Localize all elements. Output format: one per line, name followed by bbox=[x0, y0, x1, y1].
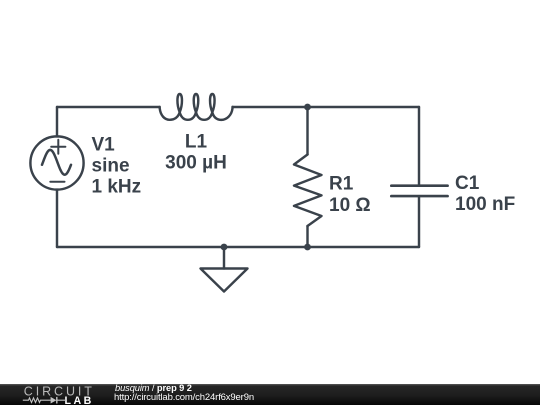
svg-text:300 µH: 300 µH bbox=[165, 153, 227, 174]
svg-text:LAB: LAB bbox=[65, 395, 94, 405]
svg-text:R1: R1 bbox=[329, 173, 354, 194]
svg-text:V1: V1 bbox=[92, 134, 116, 155]
svg-text:10 Ω: 10 Ω bbox=[329, 195, 371, 216]
svg-text:sine: sine bbox=[92, 155, 130, 176]
svg-text:C1: C1 bbox=[455, 173, 480, 194]
svg-text:1 kHz: 1 kHz bbox=[92, 176, 142, 197]
svg-text:100 nF: 100 nF bbox=[455, 194, 515, 215]
svg-text:L1: L1 bbox=[185, 132, 208, 153]
